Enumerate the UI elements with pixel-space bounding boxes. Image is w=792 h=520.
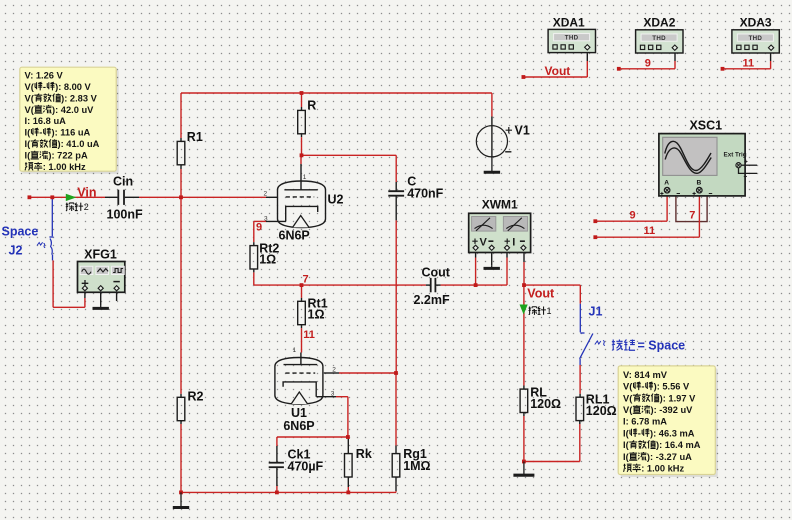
wire Cin lead left (black) [105,196,117,198]
junction rail at R [300,91,304,95]
svg-text:V(: V( [623,382,633,392]
wire V1 drop from rail [491,93,493,117]
ground under RL [523,462,525,476]
label key = Space for J1 [612,340,623,351]
resistor R1 [177,141,185,164]
tube U1 heater triangle [291,392,307,404]
svg-text:11: 11 [644,225,656,237]
wire RL1 bottom to RL bottom node [524,461,580,463]
wire Rg1 bottom to ground rail [395,477,397,491]
XFG1 minus label [113,281,119,283]
svg-text:V(: V( [25,82,35,92]
wire XDA1 input from Vout net [586,53,588,61]
junction input net start dot [28,195,32,199]
junction ground rail Ck1 [275,491,279,495]
wire U1 grid node down to Rg1 [395,373,397,446]
wire node 9 down to Rt2 [253,221,255,242]
svg-text:THD: THD [565,35,579,42]
ground left rail [180,492,182,507]
junction input node R1/R2 [179,195,183,199]
wire U2 anode pin lead [300,155,302,164]
junction ground rail R2 [179,491,183,495]
svg-text:A: A [664,179,669,186]
tube U2 anode plate [284,189,317,191]
wire C top lead [395,155,397,182]
wire Vout node down to RL [523,285,525,385]
wire XWM1 I- down to Vout node [523,252,525,262]
junction Vout node [522,283,526,287]
wire XSC1 channel B+ to net 11 [698,193,700,238]
svg-text:120Ω: 120Ω [530,397,561,411]
svg-text:I: I [512,236,515,248]
svg-text:U1: U1 [291,406,307,420]
svg-text:): 722 pA: ): 722 pA [48,151,88,161]
svg-text:): 41.0 uA: ): 41.0 uA [58,139,100,149]
wire Cin lead right to grid of U2 [125,196,139,198]
junction RL RL1 bottom node [522,460,526,464]
svg-text:I(: I( [25,151,32,161]
capacitor Cin [117,190,119,205]
junction U1 grid node [394,371,398,375]
svg-text:7: 7 [303,273,309,285]
svg-text:= Space: = Space [638,339,686,353]
wire Vout node to J1 [524,284,580,286]
svg-text:1Ω: 1Ω [259,253,276,267]
ground under XFG1 [100,305,102,308]
wire RL bottom lead [523,413,525,417]
svg-text:1: 1 [547,306,552,316]
svg-text:XSC1: XSC1 [689,119,722,133]
svg-text:R2: R2 [188,390,204,404]
svg-text:I(: I( [623,452,630,462]
svg-text:): -3.27 uA: ): -3.27 uA [647,452,692,462]
wire Ck1 bottom lead to ground rail [276,467,278,486]
wire XWM1 V+ down to output node [475,252,477,257]
wire R anode-load top lead [301,93,303,107]
wire J1 top from Vout net [579,285,581,304]
resistor Rt1 [298,301,306,324]
wire V+ node to I+ drop [476,284,507,286]
vacuum tube U2 body [278,181,326,228]
svg-text:): 2.83 V: ): 2.83 V [61,93,97,103]
svg-text:6N6P: 6N6P [283,419,314,433]
svg-text:XDA2: XDA2 [643,16,675,30]
svg-text:THD: THD [652,35,666,42]
svg-text:): 16.4 mA: ): 16.4 mA [656,440,701,450]
wire Rt2 bottom to node 7 wire [253,269,255,272]
svg-text:2: 2 [84,202,89,212]
wire U2 cathode lead to node 9 [266,220,286,222]
wire Cout left lead [426,284,430,286]
junction J2 tap [50,195,54,199]
svg-text:Vin: Vin [77,185,96,199]
svg-text:100nF: 100nF [107,207,143,221]
junction net 11 end dot at XSC1 [593,235,597,239]
svg-text:): 42.0 uV: ): 42.0 uV [52,105,94,115]
wire J2 drop from input node [51,197,53,198]
svg-text:-: - [39,128,42,138]
svg-text:1MΩ: 1MΩ [403,459,430,473]
wire Rt1 bottom node 11 to U1 anode [301,325,303,328]
wire R2 from input node down [180,197,182,394]
svg-text:11: 11 [303,329,315,341]
svg-text:470µF: 470µF [288,459,324,473]
svg-text:-: - [641,382,644,392]
tube U2 heater triangle [293,216,309,228]
svg-text:): 1.97 V: ): 1.97 V [660,393,696,403]
svg-text:V: 814 mV: V: 814 mV [623,370,668,380]
svg-text:V(: V( [25,93,35,103]
svg-text:1: 1 [293,347,297,354]
svg-text:THD: THD [749,35,763,42]
wire R2 bottom to ground rail [180,421,182,424]
tube U2 grid dashed [286,196,315,198]
vacuum tube U1 body [275,358,323,405]
resistor RL [520,389,528,412]
junction ground rail Rk [346,491,350,495]
XFG1 pins [82,286,87,291]
instrument XWM1 wattmeter [469,213,531,252]
svg-text:): 116 uA: ): 116 uA [52,128,91,138]
wire XFG1 minus pin stub [116,292,118,301]
svg-text:Vout: Vout [527,287,555,301]
svg-text:9: 9 [645,57,651,69]
ground under XWM1 [491,266,493,269]
junction wattmeter V+ node [474,283,478,287]
wire XWM1 I+ down [506,252,508,257]
wire U1 cathode lead [316,396,336,398]
switch J1 blue terminals and lever [579,304,581,333]
wire U2 anode node to C [302,154,397,156]
wire C bottom lead down to U1 grid node [395,196,397,221]
resistor R2 [177,397,185,420]
tube U1 grid dashed [285,372,315,374]
wire XDA3 input net 11 [770,53,772,61]
svg-text:3: 3 [331,390,335,397]
svg-text:Vout: Vout [545,64,571,78]
svg-text:Cin: Cin [113,175,133,189]
probe info box Vout [621,368,718,477]
resistor Rg1 [392,454,400,477]
junction net 11 end dot at XDA3 [721,67,725,71]
wire XSC1 channel A-/B- reference net 7 [667,189,676,191]
XWM1 left meter screen [472,217,496,232]
svg-text:V: V [480,236,488,248]
wire B+ rail top [181,92,492,94]
svg-text:Cout: Cout [422,265,451,279]
svg-text:R1: R1 [187,130,203,144]
switch J2 blue terminals and lever [51,199,53,237]
svg-text:V(: V( [623,393,633,403]
junction cathode node Rk [346,435,350,439]
XWM1 terminal labels +V- +I- [472,239,477,244]
resistor RL1 [576,397,584,420]
wire ground rail bottom [181,491,396,493]
svg-text:V1: V1 [515,124,530,138]
svg-text:2: 2 [332,366,336,373]
probe info box Vin [22,70,118,174]
XWM1 pins [473,245,478,250]
svg-text:6N6P: 6N6P [279,228,310,242]
svg-text:9: 9 [630,209,636,221]
probe arrow Vout (green) [520,305,528,315]
svg-text:1Ω: 1Ω [308,307,325,321]
ground under V1 [491,157,493,172]
wire U1 grid lead to grid node [324,372,339,374]
instrument XDA1 distortion analyzer [548,29,595,52]
wire R1 bottom lead to input node [180,165,182,169]
source V1 plus sign [506,127,512,133]
svg-text:120Ω: 120Ω [586,404,617,418]
svg-text:I(: I( [623,440,630,450]
svg-text:2.2mF: 2.2mF [414,293,450,307]
source V1 minus sign [505,151,511,153]
probe arrow Vin (green) [66,194,77,201]
svg-text:): 8.00 V: ): 8.00 V [55,82,91,92]
svg-text:U2: U2 [328,192,344,206]
resistor R [298,110,306,133]
wire Cout right lead to wattmeter V+ [436,284,441,286]
wire R1 top lead [180,93,182,138]
wire J1 bottom to RL1 [579,365,581,394]
svg-text:7: 7 [689,209,695,221]
wire J2 to XFG1 plus terminal [52,260,54,307]
junction U2 anode node [300,153,304,157]
svg-text:): -392 uV: ): -392 uV [651,405,694,415]
svg-text:-: - [43,82,46,92]
XWM1 right meter screen [503,217,527,232]
wire R bottom lead to U2 anode node [301,134,303,137]
wire Ck1 top lead [276,437,278,446]
junction node 7 [300,283,304,287]
wire node 7 horizontal to Cout [254,284,302,286]
wire XDA2 input net 9 [674,53,676,61]
probe label tanzhen2 [66,203,74,211]
svg-text:470nF: 470nF [407,186,443,200]
tube U1 cathode [283,382,316,397]
svg-text:V(: V( [25,105,35,115]
svg-text:9: 9 [256,222,262,234]
wire U1 cathode down to Rk node [347,397,349,437]
wire input net from source dot to Cin [29,196,105,198]
svg-text:V(: V( [623,405,633,415]
wire XSC1 channel A+ to net 9 [666,193,668,222]
svg-text:R: R [307,99,316,113]
svg-text:XDA1: XDA1 [553,16,585,30]
wire Rk bottom lead to ground rail [347,477,349,487]
probe label tanzhen1 [529,306,537,314]
svg-text:XDA3: XDA3 [740,16,772,30]
svg-text:Rk: Rk [356,447,372,461]
svg-text:Ext Trig: Ext Trig [724,152,747,159]
wire cathode node to Ck1 [277,436,348,438]
tube U2 cathode [286,206,318,221]
svg-text:XWM1: XWM1 [482,198,518,212]
junction Vout net end dot at XDA1 [522,75,526,79]
svg-text:J1: J1 [589,304,603,318]
svg-text:I: 6.78 mA: I: 6.78 mA [623,417,667,427]
wire XFG1 common pin to ground [100,292,102,305]
svg-text:I: 16.8 uA: I: 16.8 uA [25,116,67,126]
svg-text:XFG1: XFG1 [84,248,117,262]
wire RL1 bottom lead [579,421,581,424]
svg-text:Space: Space [2,224,39,238]
svg-text:2: 2 [264,190,268,197]
svg-text:I(: I( [623,428,630,438]
wire Rk top lead [347,437,349,454]
XSC1 screen [663,137,717,175]
instrument XFG1 function generator [78,262,125,293]
tube U1 anode plate [284,364,318,366]
svg-text:I(: I( [25,139,32,149]
XFG1 plus label [82,280,89,287]
svg-text:: 1.00 kHz: : 1.00 kHz [641,464,684,474]
svg-text:3: 3 [264,215,268,222]
svg-text:: 1.00 kHz: : 1.00 kHz [43,162,86,172]
instrument XDA2 distortion analyzer [636,30,683,53]
svg-text:): 5.56 V: ): 5.56 V [654,382,690,392]
capacitor Ck1 [269,462,284,464]
instrument XDA3 distortion analyzer [732,30,779,53]
resistor Rt2 [250,246,258,269]
svg-text:B: B [697,179,702,186]
wire XWM1 V- to ground [491,252,493,265]
wire Rt1 top lead from node 7 [301,285,303,298]
XSC1 waveform traces [665,141,711,170]
junction net 9 end dot at XDA2 [617,67,621,71]
capacitor Cout [430,278,432,292]
instrument XSC1 oscilloscope [659,134,745,196]
svg-text:V: 1.26 V: V: 1.26 V [25,70,64,80]
svg-text:-: - [638,428,641,438]
resistor Rk [345,454,353,477]
capacitor C [388,190,404,192]
junction net 9 end dot at XSC1 [593,219,597,223]
svg-text:1: 1 [303,174,307,181]
svg-text:J2: J2 [9,243,23,257]
source V1 circle [491,117,493,158]
svg-text:I(: I( [25,128,32,138]
svg-text:): 46.3 mA: ): 46.3 mA [650,428,695,438]
svg-text:11: 11 [743,57,755,69]
